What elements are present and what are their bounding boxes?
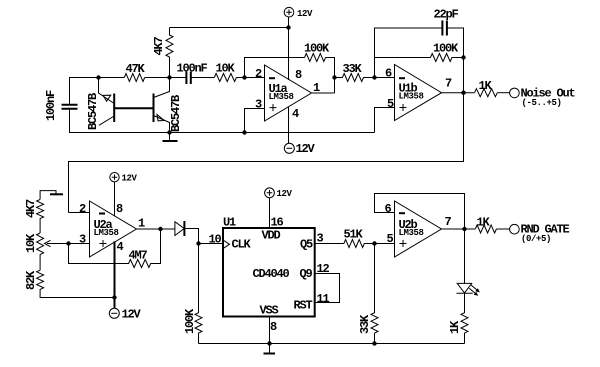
svg-text:10K: 10K <box>216 62 236 76</box>
power -12V (below U1a) <box>284 142 315 156</box>
svg-text:11: 11 <box>317 292 330 306</box>
op-amp U2a <box>79 201 145 257</box>
wire 47K to node B <box>145 77 186 79</box>
junction U2b pin5 node <box>372 241 376 245</box>
diode D1 <box>175 221 185 236</box>
svg-text:1K: 1K <box>479 79 493 93</box>
potentiometer 10K <box>24 233 90 270</box>
svg-text:U1: U1 <box>223 216 236 230</box>
svg-text:BC547B: BC547B <box>169 95 183 132</box>
power +12V (U2a pin8) <box>110 173 138 217</box>
wire U1b pin5 to ground rail <box>375 108 395 133</box>
svg-text:10: 10 <box>209 233 222 247</box>
svg-text:LM358: LM358 <box>94 228 119 238</box>
svg-text:4: 4 <box>117 240 124 254</box>
wire to RND GATE terminal <box>496 228 509 230</box>
resistor 10K <box>214 62 236 82</box>
resistor 1K (noise out) <box>475 79 498 97</box>
capacitor 100nF (input, vertical) <box>44 90 78 121</box>
wire feedback to output <box>326 58 335 94</box>
svg-text:10K: 10K <box>24 233 38 253</box>
wire U1a pin8 <box>288 28 290 81</box>
svg-text:7: 7 <box>445 215 452 229</box>
wire +12V rail <box>170 27 289 29</box>
svg-text:VDD: VDD <box>262 229 281 243</box>
wire cap bottom to ground rail <box>70 109 375 133</box>
wire U1a pin4 down <box>288 107 290 144</box>
wire VSS to ground <box>269 317 271 344</box>
wire U2a pin4 down <box>114 241 116 308</box>
resistor 100K (U1b feedback) <box>375 42 464 62</box>
resistor 51K <box>344 228 365 248</box>
wire 51K to U2b pin5 <box>364 243 394 245</box>
svg-text:2: 2 <box>255 67 262 81</box>
op-amp U1b <box>385 65 452 121</box>
svg-text:8: 8 <box>270 320 277 334</box>
wire Q9 to RST <box>315 274 340 303</box>
svg-text:LM358: LM358 <box>399 228 424 238</box>
svg-text:Q5: Q5 <box>300 238 313 252</box>
junction CLK node <box>196 241 200 245</box>
svg-text:RST: RST <box>294 299 313 313</box>
junction threshold node <box>66 241 70 245</box>
svg-text:1: 1 <box>138 217 145 231</box>
svg-text:4M7: 4M7 <box>129 249 148 263</box>
resistor 100K (U1a feedback) <box>304 42 330 62</box>
wire cap to 10K <box>191 77 215 79</box>
svg-text:12V: 12V <box>296 142 316 156</box>
terminal RND GATE <box>510 223 570 245</box>
wire U1b output <box>442 92 475 94</box>
svg-text:8: 8 <box>295 68 302 82</box>
junction -12V rail <box>112 295 116 299</box>
svg-text:(-5..+5): (-5..+5) <box>522 98 562 108</box>
resistor 47K <box>124 62 145 82</box>
wire diode to CLK and 100K <box>184 229 223 244</box>
wire U1a output <box>312 92 335 94</box>
IC U1 CD4040 <box>209 216 330 335</box>
transistor Q1 BC547B (reversed, noise source) <box>86 78 114 131</box>
ground (below Q2) <box>163 130 178 141</box>
node B junction <box>167 75 171 79</box>
ground (VSS) <box>264 344 276 354</box>
svg-text:100nF: 100nF <box>177 62 208 76</box>
resistor 4M7 (hysteresis) <box>69 229 161 268</box>
svg-text:82K: 82K <box>24 270 38 290</box>
svg-text:12V: 12V <box>122 174 138 184</box>
wire to noise out terminal <box>497 92 509 94</box>
svg-text:51K: 51K <box>344 228 364 242</box>
wire output node to LED <box>464 229 466 284</box>
svg-text:33K: 33K <box>343 62 363 76</box>
wire U1b feedback vertical <box>375 28 443 78</box>
svg-text:CD4040: CD4040 <box>253 267 290 281</box>
svg-text:BC547B: BC547B <box>86 93 100 130</box>
wire U1a feedback up <box>245 58 305 78</box>
svg-text:CLK: CLK <box>232 238 252 252</box>
resistor 4K7 (threshold) <box>24 199 44 233</box>
wire U2a pin2 <box>69 212 90 214</box>
svg-text:LM358: LM358 <box>399 92 424 102</box>
transistor Q2 BC547B <box>154 78 184 133</box>
wire 10K to U1a pin2 <box>236 77 264 79</box>
resistor 82K <box>24 270 115 298</box>
resistor 1K (LED) <box>448 293 468 343</box>
svg-text:3: 3 <box>255 98 262 112</box>
svg-text:LM358: LM358 <box>269 92 294 102</box>
svg-text:12V: 12V <box>122 308 142 322</box>
svg-text:7: 7 <box>445 77 452 91</box>
junction U1a pin2 node <box>242 75 246 79</box>
junction +12V rail / U1a pin8 <box>286 25 290 29</box>
wire U2b pin6 feedback <box>375 194 465 230</box>
wire feedback to output node <box>463 58 465 93</box>
op-amp U2b <box>385 201 452 257</box>
LED <box>457 283 480 295</box>
svg-text:8: 8 <box>116 202 123 216</box>
svg-text:5: 5 <box>387 97 394 111</box>
wire U2b output <box>442 228 476 230</box>
junction U2a output / 4M7 <box>158 227 162 231</box>
svg-text:(0/+5): (0/+5) <box>521 234 551 244</box>
resistor 4K7 (to +12V) <box>152 28 173 78</box>
svg-text:1K: 1K <box>477 216 491 230</box>
svg-text:100K: 100K <box>433 42 459 56</box>
terminal Noise Out <box>510 87 576 109</box>
wire U1b pin6 <box>375 77 395 79</box>
wire node A top <box>70 78 125 105</box>
resistor 33K (gate pulldown) <box>358 244 378 344</box>
junction ground rail / U1a pin3 <box>242 130 246 134</box>
wire base to base <box>114 107 153 109</box>
svg-text:12V: 12V <box>297 9 313 19</box>
svg-text:VSS: VSS <box>260 304 279 318</box>
junction U1b feedback node <box>461 55 465 59</box>
svg-text:4: 4 <box>292 107 299 121</box>
junction 33K / ground rail <box>372 341 376 345</box>
svg-text:33K: 33K <box>358 314 372 334</box>
svg-text:47K: 47K <box>126 62 146 76</box>
wire 22pF right <box>447 28 464 58</box>
power +12V (VDD) <box>265 188 293 228</box>
wire U1a pin3 to ground rail <box>245 109 265 133</box>
svg-text:3: 3 <box>79 233 86 247</box>
junction noise out node <box>461 91 465 95</box>
junction RND GATE node <box>462 227 466 231</box>
svg-text:100nF: 100nF <box>44 90 58 121</box>
svg-text:6: 6 <box>385 202 392 216</box>
wire U2a output <box>137 228 175 230</box>
svg-text:5: 5 <box>387 232 394 246</box>
wire noise out node down to comparator <box>69 93 464 213</box>
wire bottom ground rail <box>199 343 465 345</box>
capacitor 22pF <box>434 8 459 36</box>
ground (threshold top) <box>40 191 63 200</box>
resistor 1K (gate out) <box>475 216 496 234</box>
svg-text:2: 2 <box>79 202 86 216</box>
capacitor 100nF (series) <box>177 62 208 85</box>
svg-text:100K: 100K <box>304 42 330 56</box>
svg-text:12V: 12V <box>277 189 293 199</box>
wire Q5 to 51K <box>315 243 344 245</box>
svg-text:1K: 1K <box>448 320 462 334</box>
svg-text:4K7: 4K7 <box>152 36 166 55</box>
svg-text:Q9: Q9 <box>300 267 313 281</box>
op-amp U1a <box>255 65 320 121</box>
power -12V (U2a pin4) <box>109 308 141 322</box>
node A junction <box>96 75 100 79</box>
junction U1b pin6 node <box>372 75 376 79</box>
power +12V (top) <box>284 7 313 27</box>
svg-text:6: 6 <box>385 67 392 81</box>
svg-text:100K: 100K <box>183 308 197 334</box>
svg-text:16: 16 <box>271 216 284 230</box>
svg-text:22pF: 22pF <box>434 8 459 22</box>
resistor 33K <box>335 62 375 82</box>
resistor 100K (clock pulldown) <box>183 244 202 344</box>
svg-text:4K7: 4K7 <box>24 199 38 218</box>
junction U1a output node <box>332 75 336 79</box>
